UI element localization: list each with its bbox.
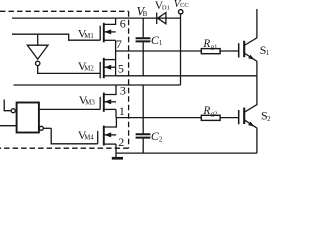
svg-text:2: 2: [159, 137, 163, 144]
svg-text:g1: g1: [211, 44, 218, 51]
svg-text:1: 1: [266, 50, 269, 57]
svg-text:M1: M1: [84, 33, 93, 40]
svg-text:R: R: [202, 38, 210, 50]
svg-text:5: 5: [118, 61, 124, 75]
svg-text:1: 1: [159, 40, 162, 47]
svg-text:M3: M3: [85, 100, 95, 107]
svg-text:R: R: [202, 105, 210, 117]
svg-text:3: 3: [120, 84, 126, 98]
svg-text:6: 6: [120, 17, 126, 31]
svg-text:2: 2: [118, 135, 124, 149]
svg-text:B: B: [143, 10, 148, 18]
svg-text:g2: g2: [211, 110, 218, 117]
svg-text:CC: CC: [180, 2, 189, 9]
svg-text:M2: M2: [84, 66, 94, 73]
svg-text:7: 7: [116, 37, 122, 51]
svg-text:D1: D1: [162, 5, 170, 12]
svg-text:1: 1: [119, 104, 125, 118]
svg-text:2: 2: [267, 116, 270, 123]
svg-text:M4: M4: [84, 134, 94, 141]
